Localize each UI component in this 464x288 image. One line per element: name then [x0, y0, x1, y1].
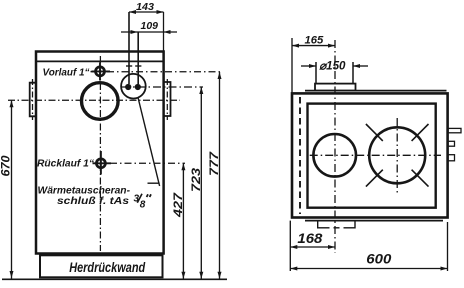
vorlauf label dash [91, 71, 95, 73]
plinth box [40, 255, 163, 277]
left tab bracket [30, 83, 36, 117]
Vorlauf center line to 777 [107, 71, 221, 73]
stove body outline (front view) [36, 52, 164, 254]
svg-text:777: 777 [207, 150, 221, 176]
svg-text:⌀150: ⌀150 [319, 61, 346, 73]
fraction slash [137, 194, 142, 203]
dim 427 vertical [181, 163, 185, 278]
Vorlauf label [43, 66, 91, 78]
dim 150 text [319, 61, 346, 73]
dim 777 text [207, 150, 221, 176]
pipe right [137, 32, 139, 84]
right tab center line [166, 79, 168, 120]
floor line [2, 278, 227, 280]
dim 600 [290, 222, 447, 271]
right side tab 2 [448, 155, 455, 161]
right side handle [448, 128, 461, 132]
Rücklauf center line to 427 [110, 162, 185, 164]
back rail line [305, 90, 447, 92]
heat exchanger port dots [125, 84, 141, 90]
flue collar [315, 84, 356, 91]
dim 670 vertical [10, 100, 14, 278]
svg-text:165: 165 [305, 35, 325, 47]
svg-text:Rücklauf 1“: Rücklauf 1“ [37, 157, 95, 169]
dim 165 text [305, 35, 325, 47]
top band line [36, 60, 164, 62]
right hotplate [369, 127, 425, 183]
front rail line [305, 220, 443, 222]
horizontal center line y=100 [8, 99, 180, 101]
svg-text:670: 670 [0, 155, 12, 177]
Herdrückwand label [69, 259, 145, 275]
Rücklauf port crosshair [93, 151, 112, 175]
dim 143 [129, 10, 164, 14]
svg-text:143: 143 [136, 1, 154, 13]
svg-text:Vorlauf 1“: Vorlauf 1“ [43, 66, 91, 78]
svg-text:109: 109 [141, 20, 159, 32]
Rücklauf label [37, 157, 95, 169]
svg-text:600: 600 [366, 252, 392, 267]
inch quote after fraction [147, 194, 151, 197]
Wärmetauscher label line1 [38, 184, 131, 196]
dim 600 text [366, 252, 392, 267]
firebox big circle [82, 83, 119, 120]
Vorlauf port crosshair [92, 63, 111, 81]
heat exchanger circle [121, 74, 146, 99]
inner box [308, 104, 436, 208]
svg-text:8: 8 [140, 199, 146, 210]
dim 168 text [297, 231, 323, 246]
left tab center line [32, 79, 34, 120]
vertical center line x=100 [99, 56, 101, 251]
dim 168 [290, 221, 335, 250]
svg-text:Herdrückwand: Herdrückwand [69, 259, 145, 275]
hotplate horizontal center line [310, 154, 441, 156]
right tab bracket [164, 82, 171, 116]
dim 427 text [171, 191, 185, 218]
dim 777 vertical [218, 72, 222, 279]
svg-text:schluß f. tAs: schluß f. tAs [57, 195, 129, 207]
bottom bracket (flue outlet) [318, 221, 355, 228]
hidden dashed line left [299, 97, 301, 214]
pipe left [128, 12, 130, 84]
dim 165 [292, 38, 335, 93]
pipe union ticks [126, 65, 141, 67]
outer box [292, 93, 448, 217]
right hotplate spokes [366, 124, 429, 187]
line through dots and to 723 [122, 86, 203, 88]
right hotplate vertical center line [396, 118, 398, 193]
leader line to heat exchanger [138, 98, 160, 187]
dim 150 [301, 62, 368, 84]
dim 143 text [136, 1, 154, 13]
svg-text:427: 427 [171, 191, 185, 218]
svg-text:723: 723 [189, 168, 203, 192]
dim 109 text [141, 20, 159, 32]
Wärmetauscher label line2 [57, 195, 129, 207]
dim 723 vertical [199, 87, 203, 279]
3/8 fraction [134, 193, 146, 210]
dim 670 text [0, 155, 12, 177]
left hotplate [313, 134, 356, 177]
right side tab 1 [448, 141, 455, 146]
dim 723 text [189, 168, 203, 192]
flue center line [334, 40, 336, 253]
dim 109 [121, 30, 177, 34]
svg-text:168: 168 [297, 231, 323, 246]
right edge extension up [163, 12, 165, 52]
